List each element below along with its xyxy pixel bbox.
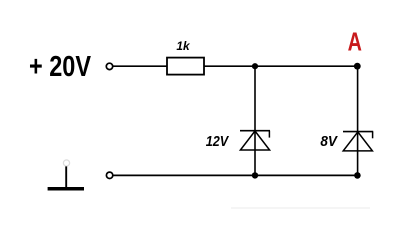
- junction J1 (top rail / D1): [252, 63, 258, 69]
- ground faint terminal: [63, 160, 69, 166]
- faint artifact streak: [231, 207, 370, 209]
- terminal T1 (top input): [106, 63, 112, 69]
- wire T1 to R1: [113, 65, 167, 67]
- node A junction: [354, 63, 361, 70]
- wire R1 to node A: [204, 65, 357, 67]
- junction J2 (bottom rail / D1): [252, 172, 258, 178]
- wire D2 anode to bottom rail: [357, 151, 359, 176]
- svg-text:1k: 1k: [176, 39, 190, 53]
- resistor R1: [167, 58, 204, 75]
- zener diode D1: [240, 131, 270, 150]
- terminal T2 (bottom return): [106, 172, 112, 178]
- junction J3 (bottom rail / D2): [354, 172, 361, 179]
- svg-text:8V: 8V: [320, 134, 338, 150]
- wire node A to D2 cathode: [357, 65, 359, 151]
- ground: [48, 166, 84, 188]
- zener diode D2: [343, 132, 373, 151]
- wire J1 to D1 cathode: [254, 65, 256, 150]
- bottom rail wire: [113, 174, 357, 176]
- svg-text:12V: 12V: [206, 134, 230, 150]
- svg-text:A: A: [348, 27, 362, 57]
- svg-text:+ 20V: + 20V: [29, 51, 91, 83]
- wire D1 anode to bottom rail: [254, 150, 256, 176]
